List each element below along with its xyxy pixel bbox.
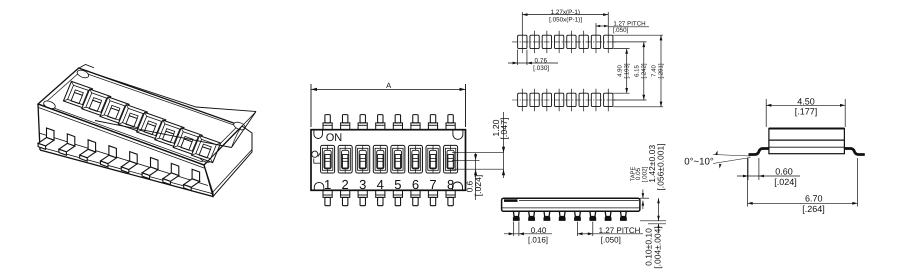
top view pin 3 (upper)	[360, 115, 365, 123]
isometric switch opening 2	[82, 89, 111, 116]
footprint dimension 7.40 [.291]	[660, 35, 662, 107]
svg-text:[.177]: [.177]	[795, 107, 818, 117]
top view pin 5 (upper)	[395, 115, 400, 123]
svg-text:7.40: 7.40	[650, 65, 657, 77]
end view left lead	[748, 148, 768, 154]
side view dimension 0.10+-0.10	[657, 224, 659, 232]
top view pin 15 (lower)	[428, 190, 437, 197]
footprint pad 18 (bottom row)	[542, 93, 551, 106]
isometric switch opening 5	[137, 112, 166, 139]
isometric corner boss back-right	[233, 121, 247, 132]
top view pin 12 (lower)	[376, 190, 385, 197]
switch 1 actuator	[325, 154, 330, 167]
isometric tape sheet front edge	[95, 120, 231, 147]
dimension 1.20 [.047]	[502, 112, 504, 178]
svg-text:[.024]: [.024]	[774, 177, 797, 187]
top view pin 6 (upper)	[413, 115, 418, 123]
svg-text:4.50: 4.50	[797, 96, 815, 106]
svg-text:[.024]: [.024]	[473, 175, 483, 197]
top view corner notch top-right	[453, 130, 463, 140]
footprint dimension 0.76 [.030]	[517, 50, 519, 65]
isometric switch opening 8	[191, 136, 220, 163]
isometric front side face outline	[38, 104, 213, 196]
end view dimension 6.70 [.264]	[746, 158, 748, 206]
footprint pad 8 (top row)	[604, 35, 613, 48]
footprint dimension 1.27x(P-1)	[521, 12, 523, 31]
footprint pad 2 (top row)	[530, 35, 539, 48]
top view pin 11 (lower)	[358, 190, 367, 197]
end view right lead	[844, 148, 864, 154]
svg-text:[.030]: [.030]	[533, 65, 549, 72]
isometric gull-wing lead 7	[171, 163, 178, 175]
footprint dimension 6.15 [.242]	[643, 42, 645, 100]
isometric switch 7 actuator	[181, 139, 192, 150]
top view pin 10 (lower)	[341, 190, 350, 197]
svg-text:[.242]: [.242]	[640, 63, 647, 78]
side view dimension 1.27 PITCH [.050]	[576, 221, 578, 235]
top view pin 16 (lower)	[446, 190, 455, 197]
side view lead 8	[620, 211, 626, 216]
top view pin 2 (upper)	[342, 115, 347, 123]
side view body outline	[502, 198, 640, 211]
svg-text:0.76: 0.76	[535, 57, 548, 64]
side view coplanarity line	[648, 223, 666, 225]
isometric gull-wing lead 5	[130, 152, 137, 164]
isometric switch 5 actuator	[144, 123, 155, 134]
svg-text:2: 2	[342, 177, 349, 192]
isometric switch opening 6	[155, 120, 184, 147]
footprint pad 4 (top row)	[554, 35, 563, 48]
side view lead 2	[529, 211, 535, 216]
isometric body top face	[38, 68, 242, 165]
isometric switch 2 actuator	[89, 100, 100, 111]
svg-text:4: 4	[377, 177, 384, 192]
svg-text:6.70: 6.70	[805, 194, 823, 204]
svg-text:0°~10°: 0°~10°	[684, 157, 714, 168]
svg-text:[.050x(P-1)]: [.050x(P-1)]	[549, 17, 582, 24]
svg-text:6.15: 6.15	[633, 65, 640, 77]
isometric switch opening 7	[173, 128, 202, 155]
side view seating plane line	[640, 220, 666, 222]
isometric tape curl at tip	[231, 111, 255, 147]
footprint extension lines right	[613, 34, 663, 36]
footprint: row centerline top	[512, 41, 616, 43]
isometric corner boss front-left	[43, 99, 57, 110]
side view lead 5	[575, 211, 581, 216]
isometric gull-wing lead 3	[88, 140, 95, 152]
isometric front face left edge	[38, 104, 40, 150]
isometric switch 3 actuator	[107, 108, 118, 119]
end view dimension 0.60 [.024]	[747, 158, 749, 180]
svg-text:[.193]: [.193]	[623, 63, 630, 78]
isometric switch opening 3	[100, 97, 129, 124]
top view pin 7 (upper)	[430, 115, 435, 123]
switch 2 actuator	[342, 154, 347, 167]
isometric corner boss back-left	[76, 69, 90, 80]
svg-text:[.264]: [.264]	[802, 204, 825, 214]
isometric gull-wing lead 2	[67, 134, 74, 146]
footprint pad 3 (top row)	[542, 35, 551, 48]
isometric gull-wing lead 1	[46, 128, 53, 140]
svg-text:8: 8	[447, 177, 454, 192]
switch 5	[391, 145, 405, 173]
svg-text:5: 5	[394, 177, 401, 192]
svg-text:[.004±.004]: [.004±.004]	[652, 226, 662, 268]
side view lead 6	[590, 211, 596, 216]
footprint pad 16 (bottom row)	[518, 93, 527, 106]
isometric right end face bottom line	[211, 149, 252, 193]
svg-text:7: 7	[429, 177, 436, 192]
switch 8	[444, 145, 458, 173]
isometric switch opening 4	[118, 105, 147, 132]
isometric tape sheet top edge	[85, 70, 256, 111]
isometric gull-wing lead 6	[150, 157, 157, 169]
svg-text:A: A	[386, 81, 392, 90]
isometric top face inner rim	[43, 71, 237, 161]
dimension A	[311, 88, 465, 90]
svg-text:1.27 PITCH: 1.27 PITCH	[599, 226, 641, 235]
top view pin 9 (lower)	[323, 190, 332, 197]
top view pin 1 (upper)	[325, 115, 330, 123]
svg-text:[.050]: [.050]	[601, 236, 621, 245]
footprint pad 20 (bottom row)	[567, 93, 576, 106]
switch 4	[373, 145, 387, 173]
side view lead 4	[559, 211, 565, 216]
side view tape dimension TAPE 0.05 [.002]	[640, 197, 649, 199]
footprint: row centerline bottom	[512, 99, 616, 101]
switch 2	[338, 145, 352, 173]
svg-text:[.056±0.001]: [.056±0.001]	[655, 143, 665, 190]
top view pin 4 (upper)	[378, 115, 383, 123]
top view corner notch top-left	[314, 130, 323, 139]
switch 6	[408, 145, 422, 173]
side view lead 7	[605, 211, 611, 216]
dimension 0.6 [.024]	[475, 153, 477, 200]
side view tape end mark	[504, 199, 517, 202]
switch 6 actuator	[413, 154, 418, 167]
switch 3 actuator	[360, 154, 365, 167]
top view pin 8 (upper)	[448, 115, 453, 123]
footprint pad 5 (top row)	[567, 35, 576, 48]
svg-text:[.291]: [.291]	[657, 63, 664, 78]
switch 7 actuator	[430, 154, 435, 167]
isometric right end face	[204, 126, 252, 196]
svg-text:1.27x(P-1): 1.27x(P-1)	[551, 9, 580, 16]
top view corner notch bottom-right	[452, 182, 462, 190]
footprint pad 22 (bottom row)	[591, 93, 600, 106]
isometric switch 4 actuator	[126, 116, 137, 127]
side view dimension 0.40 [.016]	[513, 221, 515, 235]
top view pin 14 (lower)	[411, 190, 420, 197]
isometric front face step line	[39, 133, 208, 185]
top view pin 13 (lower)	[393, 190, 402, 197]
isometric tape corner flap	[79, 64, 94, 67]
svg-text:[.016]: [.016]	[528, 236, 548, 245]
leader lines for actuator dimensions	[452, 152, 503, 154]
svg-text:ON: ON	[326, 132, 343, 144]
isometric switch 6 actuator	[162, 131, 173, 142]
switch 5 actuator	[395, 154, 400, 167]
mold mark circle on left edge	[312, 151, 318, 157]
end view body	[769, 128, 844, 153]
footprint dimension 1.27 pitch	[595, 23, 597, 31]
svg-text:0.40: 0.40	[531, 226, 547, 235]
switch 7	[426, 145, 440, 173]
side view parting line	[502, 207, 640, 209]
footprint pad 6 (top row)	[579, 35, 588, 48]
switch 1	[321, 145, 335, 173]
svg-text:0.60: 0.60	[775, 167, 793, 177]
isometric gull-wing lead 4	[109, 146, 116, 158]
footprint pad 17 (bottom row)	[530, 93, 539, 106]
isometric switch 8 actuator	[199, 147, 210, 158]
side view tape line	[519, 200, 639, 202]
switch 8 actuator	[448, 154, 453, 167]
svg-text:6: 6	[412, 177, 419, 192]
isometric switch opening 1	[63, 81, 92, 108]
footprint pad 19 (bottom row)	[554, 93, 563, 106]
switch 4 actuator	[378, 154, 383, 167]
side view lead 1	[513, 211, 519, 216]
top view body outline	[311, 130, 465, 191]
footprint dimension 4.90 [.193]	[626, 49, 628, 94]
top view: dimension A extension lines	[310, 84, 312, 127]
side view dimension 1.42+-0.03	[657, 198, 659, 221]
isometric gull-wing lead 8	[192, 169, 199, 181]
side view lead 3	[544, 211, 550, 216]
svg-text:[.047]: [.047]	[499, 117, 509, 139]
end view angle dimension 0 to 10 deg	[713, 154, 750, 155]
isometric tape sheet right edge	[231, 111, 255, 147]
isometric corner boss front-right	[199, 153, 213, 164]
svg-text:4.90: 4.90	[616, 65, 623, 77]
switch 3	[356, 145, 370, 173]
footprint pad 1 (top row)	[518, 35, 527, 48]
footprint pad 23 (bottom row)	[604, 93, 613, 106]
isometric front face bottom inner line	[40, 147, 212, 193]
footprint pad 21 (bottom row)	[579, 93, 588, 106]
isometric switch 1 actuator	[71, 92, 82, 103]
svg-text:1: 1	[324, 177, 331, 192]
end view dimension 4.50 [.177]	[765, 99, 767, 127]
svg-text:[.050]: [.050]	[613, 27, 629, 34]
top view corner notch bottom-left	[314, 182, 323, 190]
svg-text:3: 3	[359, 177, 366, 192]
footprint pad 7 (top row)	[591, 35, 600, 48]
isometric front face chamfer line	[38, 107, 203, 167]
